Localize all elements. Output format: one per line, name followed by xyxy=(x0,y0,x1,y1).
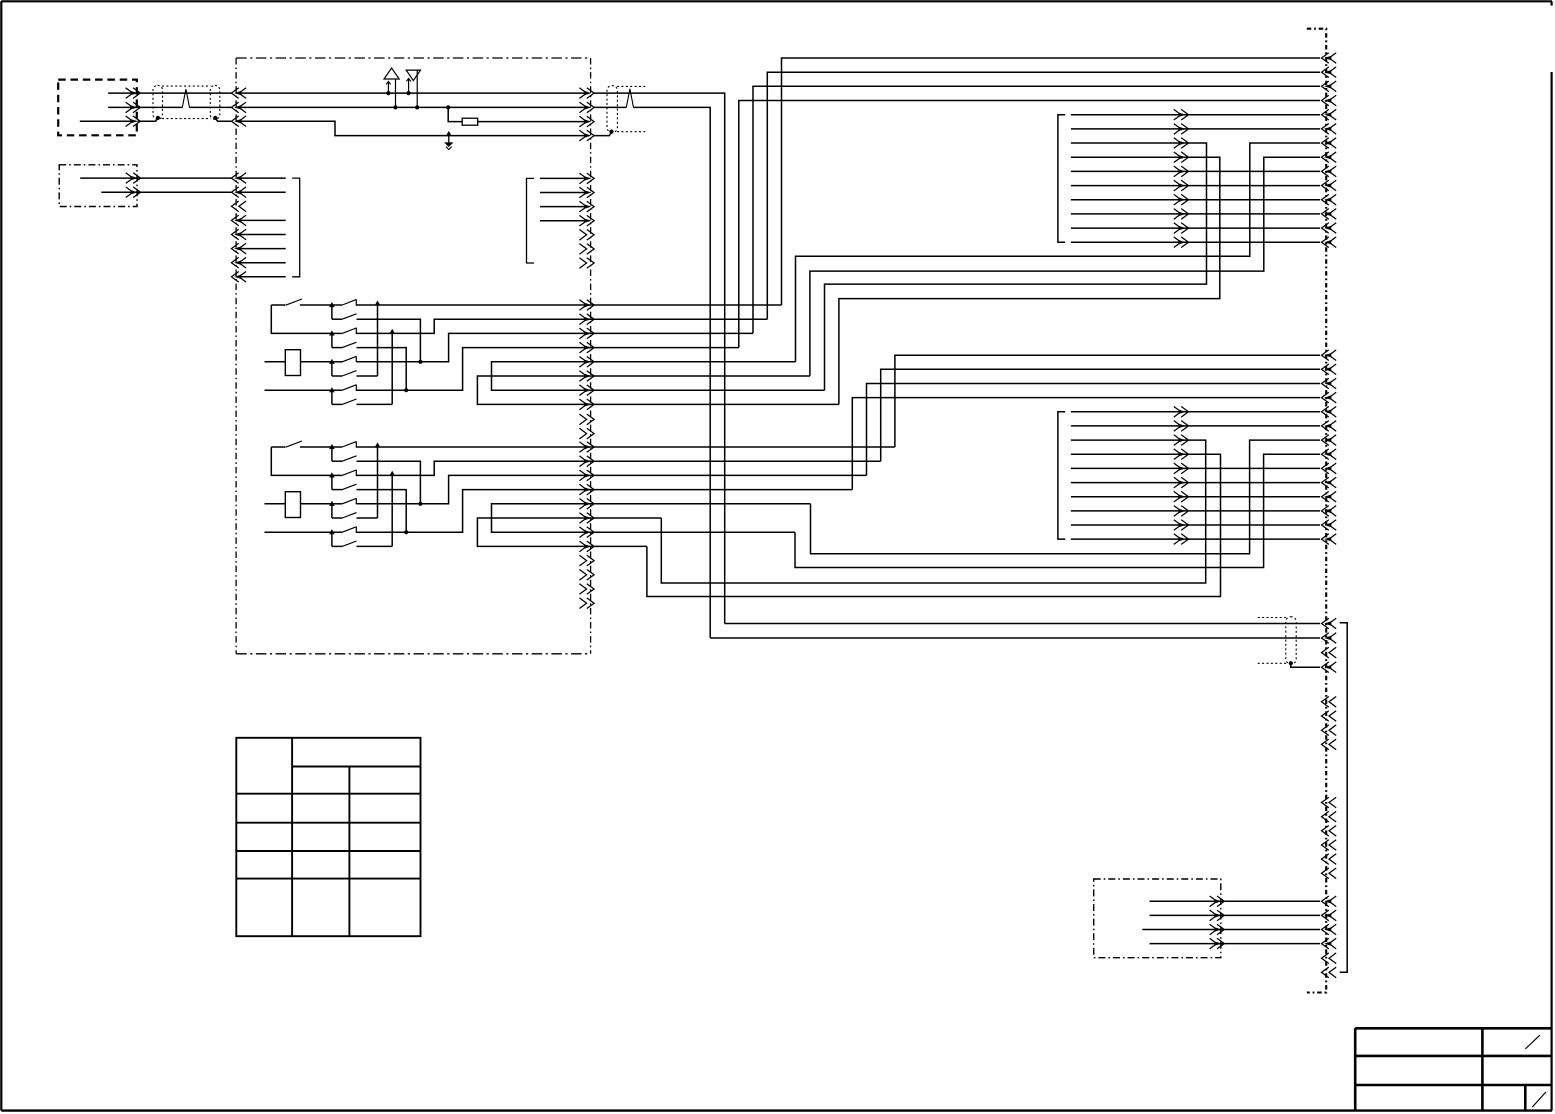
pin arrow X1.1 xyxy=(126,88,141,99)
wire harness upper line 4 (via drop to K1.8) xyxy=(839,157,1220,404)
relay coil K1 xyxy=(285,350,300,376)
wire harness lower line 7 (bracket to X4) xyxy=(1071,496,1320,498)
wire staircase row3 (to X4 lower pin 3) xyxy=(867,384,1321,476)
resistor R1 (terminator) xyxy=(462,118,478,125)
pin arrow A1 relay row 19 (no wire) xyxy=(579,555,594,566)
pin arrow A1 left pin 6 (no wire) xyxy=(231,201,246,212)
wire K1.2 NC throw to row7 net xyxy=(357,348,407,391)
wire harness lower line 3 (via drop to K2.6) xyxy=(661,440,1205,583)
pin arrow A1 relay row 15 xyxy=(579,499,594,510)
junction dot (K2.1 / K2.3-NC tie) xyxy=(375,442,381,447)
wire shield TP2 to A1 pin xyxy=(594,132,612,136)
pin arrow X4 pin 40 (no wire) xyxy=(1322,840,1337,851)
pin arrow A1 relay row 7 xyxy=(579,385,594,396)
revision table (bottom left) xyxy=(236,738,420,936)
wire A1 internal center row 4 (bracket to pin) xyxy=(540,220,587,222)
ECU block outline A1 bottom edge (dash-dot) xyxy=(236,653,591,655)
relay contact K2.1 (changeover) xyxy=(329,444,335,449)
drawing frame border bottom xyxy=(1,1109,1552,1111)
pin arrow X4 upper pin 11 xyxy=(1322,194,1337,205)
shield junction dot TP1 right xyxy=(213,116,217,120)
harness arrow upper 2 xyxy=(1174,124,1189,135)
twisted pair shield TP3 (dotted outline) xyxy=(1258,617,1288,619)
wire bus row4 (riser x739 to X4 pin 4) xyxy=(739,101,1320,348)
junction dot CAN-L tap 3 xyxy=(446,105,450,109)
harness arrow lower 7 xyxy=(1174,491,1189,502)
wire A1 internal center row 2 (bracket to pin) xyxy=(540,192,587,194)
drawing frame border left xyxy=(0,1,2,1110)
pin arrow A1 relay row 11 xyxy=(579,442,594,453)
pin arrow A1 relay row 14 xyxy=(579,484,594,495)
harness arrow lower 8 xyxy=(1174,506,1189,517)
power symbol up-triangle xyxy=(384,68,399,79)
pin arrow X4 pin 31 (no wire) xyxy=(1322,647,1337,658)
pin arrow A1 relay row 13 xyxy=(579,470,594,481)
wire resistor R1 to A1 pin xyxy=(478,121,587,123)
title block slash mark (lower) xyxy=(1532,1092,1546,1107)
pin arrow X4 upper pin 4 xyxy=(1322,95,1337,106)
wire X2 pin 1 to A1 xyxy=(80,177,232,179)
pin arrow A1 center pin 2 xyxy=(579,102,594,113)
pin arrow A1 relay row 20 (no wire) xyxy=(579,570,594,581)
pin arrow X1.3 xyxy=(126,116,141,127)
wire A1 internal row 5 (to bracket) xyxy=(240,234,286,236)
shield junction dot TP3 xyxy=(1289,661,1293,665)
pin arrow X4 lower pin 14 xyxy=(1322,534,1337,545)
pin arrow X4 upper pin 14 xyxy=(1322,237,1337,248)
group bracket (harness group upper) xyxy=(1058,115,1065,243)
pin arrow X5.1 xyxy=(1210,896,1225,907)
harness arrow lower 2 xyxy=(1174,421,1189,432)
wire harness lower line 4 (via drop to K2.8) xyxy=(647,454,1221,596)
pin arrow X4 upper pin 2 xyxy=(1322,67,1337,78)
wire K1 row6 return (riser to X4 pin 8) xyxy=(810,157,1320,376)
pin arrow A1 left pin 7 xyxy=(231,215,246,226)
wire jumper A2 pins row6-row8 (drops) xyxy=(477,518,661,546)
harness arrow upper 9 xyxy=(1174,223,1189,234)
wire harness upper line 1 (bracket to X4) xyxy=(1071,114,1320,116)
connector box X1 (top-left, dashed) xyxy=(58,80,137,136)
wire A1 internal center row 3 (bracket to pin) xyxy=(540,206,587,208)
wire X2 pin 2 to A1 xyxy=(101,191,232,193)
wire harness upper line 7 (bracket to X4) xyxy=(1071,199,1320,201)
wire switch S1 to contact K1.2 common xyxy=(271,305,332,333)
harness arrow upper 3 xyxy=(1174,138,1189,149)
wire K2.4 NO throw (riser) to staircase row4 xyxy=(356,490,852,533)
harness arrow lower 9 xyxy=(1174,520,1189,531)
wire harness upper line 8 (bracket to X4) xyxy=(1071,213,1320,215)
wire K2.3 NO throw (riser) to staircase row3 xyxy=(357,475,867,503)
pin arrow X2.2 xyxy=(126,187,141,198)
pin arrow X4 lower pin 9 xyxy=(1322,463,1337,474)
wire harness lower line 9 (bracket to X4) xyxy=(1071,524,1320,526)
wire CAN-L to resistor R1 xyxy=(448,107,462,121)
pin arrow A1 relay row 9 (no wire) xyxy=(579,414,594,425)
group bracket (left pin group) xyxy=(292,178,300,277)
drawing frame border right (upper stub) xyxy=(1550,1,1552,5)
wire down-triangle to CAN-L xyxy=(416,70,418,107)
harness arrow upper 7 xyxy=(1174,194,1189,205)
pin arrow A1 left pin 10 xyxy=(231,257,246,268)
wire harness upper line 3 (via drop to K1.7) xyxy=(825,143,1207,390)
wire staircase row4 (to X4 lower pin 4) xyxy=(852,398,1320,490)
wire X5 line 1 to X4 xyxy=(1150,900,1321,902)
pin arrow X4 lower pin 12 xyxy=(1322,506,1337,517)
pin arrow A1 relay row 18 xyxy=(579,541,594,552)
harness arrow upper 10 xyxy=(1174,237,1189,248)
wire shield TP3 to X4 pin xyxy=(1291,664,1320,668)
wire K1.2 NO throw (jog up) to A1 pin row2 xyxy=(356,319,767,333)
wire coil K1 to contact K1.3 common xyxy=(301,361,332,363)
connector column A1 center (dash-dot) xyxy=(590,58,592,654)
pin arrow X4 pin 34 (no wire) xyxy=(1322,711,1337,722)
pin arrow X4 upper pin 3 xyxy=(1322,81,1337,92)
harness arrow upper 6 xyxy=(1174,180,1189,191)
pin arrow X4 upper pin 5 xyxy=(1322,109,1337,120)
wire K1 row5 return (riser to X4 pin 7) xyxy=(796,143,1321,362)
wire harness lower line 5 (bracket to X4) xyxy=(1071,467,1320,469)
harness arrow lower 6 xyxy=(1174,477,1189,488)
pin arrow A1 relay row 4 xyxy=(579,342,594,353)
wire tie K1.3-NC to row1 xyxy=(377,305,379,376)
switch S2 (manual contact) xyxy=(271,446,285,448)
wire K2.2 NC throw to row7 net xyxy=(357,490,407,533)
wire CAN-H (X1 to A1 pin) xyxy=(108,92,232,94)
title block (bottom right) xyxy=(1355,1027,1551,1030)
wire up-triangle to CAN-L xyxy=(395,79,397,107)
pin arrow X4 CAN-H xyxy=(1322,618,1337,629)
twist symbol TP2 (spike) xyxy=(626,89,633,108)
junction dot (K2.2-NC / K2.4-NO tie) xyxy=(404,530,408,534)
wire harness lower line 1 (bracket to X4) xyxy=(1071,411,1320,413)
wire harness upper line 9 (bracket to X4) xyxy=(1071,227,1320,229)
pin arrow X4 upper pin 1 xyxy=(1322,53,1337,64)
wire A1 internal row 7 (to bracket) xyxy=(240,262,286,264)
pin arrow X4 pin 35 (no wire) xyxy=(1322,725,1337,736)
harness arrow lower 5 xyxy=(1174,463,1189,474)
wire A1 internal row 1 (to bracket) xyxy=(240,177,286,179)
wire K2 row5 return (drop to X4 lower pin 7) xyxy=(811,440,1321,554)
wire CAN-L inside A1 (pin to pin) xyxy=(240,106,588,108)
wire K1.1 NC throw to row5 net xyxy=(357,319,421,362)
wire K1.4 NC throw xyxy=(357,403,393,405)
relay contact K1.2 (changeover) xyxy=(329,330,335,335)
pin arrow X4 pin 33 (no wire) xyxy=(1322,697,1337,708)
power symbol down-triangle xyxy=(406,70,420,81)
pin arrow X4 lower pin 2 xyxy=(1322,364,1337,375)
wire shield inside A1 (step down) xyxy=(236,121,587,135)
pin arrow A1 center pin 5 xyxy=(579,173,594,184)
pin arrow A1 left pin 11 xyxy=(231,272,246,283)
wire staircase row1 (to X4 lower pin 1) xyxy=(895,355,1320,447)
pin arrow X4 upper pin 9 xyxy=(1322,166,1337,177)
wire K2.3 NC throw xyxy=(357,517,378,519)
pin arrow X2.1 xyxy=(126,173,141,184)
junction dot (K1.1 / K1.3-NC tie) xyxy=(375,300,381,305)
wire A1 internal row 8 (to bracket) xyxy=(240,276,286,278)
wire K1.3 NO throw (riser) to A1 pin row3 xyxy=(357,333,754,361)
pin arrow A1 center pin 4 xyxy=(579,130,594,141)
junction dot (K1.2-NO / K1.4-NC tie) xyxy=(389,329,395,334)
connector column A1 left edge (dash-dot) xyxy=(235,58,237,654)
pin arrow X4 lower pin 4 xyxy=(1322,392,1337,403)
pin arrow X4 upper pin 8 xyxy=(1322,152,1337,163)
pin arrow X4 pin 38 (no wire) xyxy=(1322,811,1337,822)
pin arrow A1 relay row 10 (no wire) xyxy=(579,428,594,439)
drawing frame border right xyxy=(1550,72,1552,1111)
drawing frame border top xyxy=(1,0,1552,2)
wire harness upper line 10 (bracket to X4) xyxy=(1071,241,1320,243)
junction dot CAN-H tap 2 xyxy=(407,91,411,95)
pin arrow X4 pin 43 xyxy=(1322,896,1337,907)
pin arrow A1 center pin 7 xyxy=(579,201,594,212)
wire harness lower line 6 (bracket to X4) xyxy=(1071,482,1320,484)
harness arrow upper 4 xyxy=(1174,152,1189,163)
wire shield (twisted-pair dot to A1 pin) xyxy=(215,118,232,121)
junction dot CAN-L tap 2 xyxy=(415,105,419,109)
harness arrow lower 1 xyxy=(1174,407,1189,418)
pin arrow A1 left pin 8 xyxy=(231,229,246,240)
pin arrow X4 upper pin 10 xyxy=(1322,180,1337,191)
wire tie K2.4-NC to row3 xyxy=(391,475,393,546)
wire bus row2 (riser x767 to X4 pin 2) xyxy=(767,72,1320,319)
junction dot CAN-H tap 1 xyxy=(386,91,390,95)
pin arrow A1 left pin 1 xyxy=(231,88,246,99)
connector box X2 (left, dash-dot) xyxy=(59,165,137,207)
pin arrow X4 lower pin 7 xyxy=(1322,435,1337,446)
wire CAN-L (X1 to A1 pin, gap at twist symbol) xyxy=(108,106,182,108)
pin arrow X5.3 xyxy=(1210,924,1225,935)
shield junction dot TP2 xyxy=(609,130,613,134)
pin arrow X4 upper pin 6 xyxy=(1322,124,1337,135)
harness arrow upper 8 xyxy=(1174,209,1189,220)
relay contact K1.4 (changeover) xyxy=(329,387,335,392)
wire CAN-H inside A1 (pin to pin) xyxy=(240,92,588,94)
pin arrow X4 pin 37 (no wire) xyxy=(1322,797,1337,808)
pin arrow A1 center pin 8 xyxy=(579,215,594,226)
pin arrow X4 lower pin 8 xyxy=(1322,449,1337,460)
wire K2.4 NC throw xyxy=(357,545,393,547)
pin arrow A1 relay row 5 xyxy=(579,357,594,368)
group bracket (center pin group) xyxy=(527,178,535,263)
wire K1.1 NO throw to A1 pin row1 xyxy=(356,304,782,306)
wire harness upper line 5 (bracket to X4) xyxy=(1071,170,1320,172)
connector box X5 (bottom-right, dash-dot) xyxy=(1094,879,1221,958)
junction marker shield-ground xyxy=(446,131,452,136)
pin arrow X4 lower pin 10 xyxy=(1322,477,1337,488)
wire jumper A1 pins row5-row7 xyxy=(492,362,825,390)
junction dot CAN-L tap 1 xyxy=(393,105,397,109)
junction dot (K2.1-NC / K2.3-NO tie) xyxy=(418,502,422,506)
wire K1.4 NO throw (riser) to A1 pin row4 xyxy=(356,348,739,391)
ground symbol xyxy=(448,136,450,143)
pin arrow X4 lower pin 11 xyxy=(1322,491,1337,502)
wire X5 line 2 to X4 xyxy=(1150,914,1321,916)
group bracket (harness group lower) xyxy=(1058,412,1065,539)
wire contact K2.4 common feed xyxy=(265,531,332,533)
wire harness upper line 6 (bracket to X4) xyxy=(1071,185,1320,187)
pin arrow X4 pin 48 (no wire) xyxy=(1322,967,1337,978)
pin arrow X4 lower pin 3 xyxy=(1322,378,1337,389)
arrow tap to down-triangle from CAN-H xyxy=(408,79,410,93)
pin arrow A1 center pin 3 xyxy=(579,116,594,127)
wire K2 row7 return (drop to X4 lower pin 8) xyxy=(795,454,1320,567)
twist symbol TP1 (spike) xyxy=(182,89,189,107)
pin arrow X5.4 xyxy=(1210,938,1225,949)
wire CAN-L (drop to X4) xyxy=(710,637,1320,639)
pin arrow A1 center pin 1 xyxy=(579,88,594,99)
switch S1 (manual contact) xyxy=(271,304,285,306)
pin arrow A1 center pin 9 (no wire) xyxy=(579,230,594,241)
pin arrow A1 center pin 10 (no wire) xyxy=(579,244,594,255)
wire jumper A1 pins row6-row8 xyxy=(477,376,839,404)
harness arrow lower 3 xyxy=(1174,435,1189,446)
pin arrow A1 left pin 5 xyxy=(231,187,246,198)
twisted pair shield TP2 (dotted outline) xyxy=(617,85,645,87)
pin arrow X4 lower pin 5 xyxy=(1322,407,1337,418)
pin arrow X4 upper pin 7 xyxy=(1322,138,1337,149)
harness arrow upper 5 xyxy=(1174,166,1189,177)
pin arrow A1 relay row 1 xyxy=(579,300,594,311)
wire switch S2 to contact K2.2 common xyxy=(271,447,332,475)
harness arrow lower 4 xyxy=(1174,449,1189,460)
wire bus row3 (riser x753 to X4 pin 3) xyxy=(753,86,1320,333)
pin arrow X4 pin 44 xyxy=(1322,910,1337,921)
pin arrow X4 CAN-L xyxy=(1322,633,1337,644)
wire tie K2.3-NC to row1 xyxy=(377,447,379,518)
pin arrow X4 pin 47 (no wire) xyxy=(1322,953,1337,964)
pin arrow X4 upper pin 12 xyxy=(1322,209,1337,220)
junction dot (K1.2-NC / K1.4-NO tie) xyxy=(404,388,408,392)
pin arrow X4 pin 46 xyxy=(1322,938,1337,949)
relay contact K2.2 (changeover) xyxy=(329,472,335,477)
pin arrow A1 left pin 9 xyxy=(231,243,246,254)
pin arrow A1 relay row 3 xyxy=(579,328,594,339)
wire tie K1.4-NC to row3 xyxy=(391,333,393,404)
wire harness upper line 2 (bracket to X4) xyxy=(1071,128,1320,130)
wire bus row1 (riser x781 to X4 pin 1) xyxy=(782,58,1321,305)
wire staircase row2 (to X4 lower pin 2) xyxy=(881,369,1320,461)
relay coil K2 xyxy=(285,492,300,518)
pin arrow A1 left pin 3 xyxy=(231,116,246,127)
wire shield (X1 third pin) xyxy=(80,120,137,122)
harness arrow upper 1 xyxy=(1174,109,1189,120)
wire CAN-H (A1 pin to drop) xyxy=(594,93,725,623)
pin arrow X5.2 xyxy=(1210,910,1225,921)
pin arrow X4 shield xyxy=(1322,662,1337,673)
wire A1 internal row 4 (to bracket) xyxy=(240,219,286,221)
pin arrow A1 relay row 12 xyxy=(579,456,594,467)
pin arrow A1 relay row 21 (no wire) xyxy=(579,584,594,595)
pin arrow A1 relay row 16 xyxy=(579,513,594,524)
wire coil K2 feed xyxy=(265,503,286,505)
wire harness lower line 2 (bracket to X4) xyxy=(1071,425,1320,427)
relay contact K1.3 (changeover) xyxy=(329,359,335,364)
pin arrow X4 lower pin 13 xyxy=(1322,520,1337,531)
wire jumper A2 pins row5-row7 (drops) xyxy=(492,504,811,532)
pin arrow A1 center pin 11 (no wire) xyxy=(579,258,594,269)
wire K2.1 NC throw to row5 net xyxy=(357,461,421,504)
pin arrow X4 pin 39 (no wire) xyxy=(1322,826,1337,837)
wire coil K1 feed xyxy=(265,361,286,363)
pin arrow X4 pin 42 (no wire) xyxy=(1322,868,1337,879)
pin arrow X4 pin 41 (no wire) xyxy=(1322,854,1337,865)
pin arrow X4 upper pin 13 xyxy=(1322,223,1337,234)
group bracket (X4 lower pin group) xyxy=(1340,623,1348,973)
ECU block outline A1 top edge (dash-dot) xyxy=(236,57,591,59)
wire K1.3 NC throw xyxy=(357,375,378,377)
pin arrow X4 lower pin 6 xyxy=(1322,421,1337,432)
relay contact K2.3 (changeover) xyxy=(329,501,335,506)
harness arrow lower 10 xyxy=(1174,534,1189,545)
arrow tap to up-triangle from CAN-H xyxy=(387,82,389,93)
pin arrow A1 center pin 6 xyxy=(579,187,594,198)
wire coil K2 to contact K2.3 common xyxy=(301,503,332,505)
wire K2.1 NO throw to A1 pin row1 (to staircase) xyxy=(356,446,895,448)
wire A1 internal row 2 (to bracket) xyxy=(240,191,286,193)
pin arrow X4 pin 45 xyxy=(1322,924,1337,935)
connector line X4 (far right, dash-dot) xyxy=(1307,29,1326,993)
relay contact K1.1 (changeover) xyxy=(329,302,335,307)
wire CAN-L (A1 pin to drop, gap at twist symbol) xyxy=(594,106,627,108)
pin arrow A1 left pin 2 xyxy=(231,102,246,113)
wire X5 line 4 to X4 xyxy=(1150,943,1321,945)
pin arrow X4 pin 36 (no wire) xyxy=(1322,739,1337,750)
wire harness lower line 10 (bracket to X4) xyxy=(1071,538,1320,540)
junction dot (K1.1-NC / K1.3-NO tie) xyxy=(418,360,422,364)
wire CAN-H (drop to X4) xyxy=(725,623,1320,625)
wire K2.2 NO throw (jog up) to staircase row2 xyxy=(356,461,881,475)
wire A1 internal center row 1 (bracket to pin) xyxy=(540,177,587,179)
wire contact K1.4 common feed xyxy=(265,389,332,391)
twisted pair shield TP1 (dotted outline) xyxy=(162,85,211,87)
pin arrow A1 relay row 2 xyxy=(579,314,594,325)
title block slash mark (upper) xyxy=(1525,1035,1540,1049)
shield junction dot TP1 left xyxy=(156,116,160,120)
pin arrow A1 relay row 17 xyxy=(579,527,594,538)
pin arrow A1 relay row 8 xyxy=(579,399,594,410)
pin arrow X1.2 xyxy=(126,102,141,113)
wire X5 line 3 to X4 xyxy=(1142,929,1320,931)
pin arrow A1 relay row 6 xyxy=(579,371,594,382)
pin arrow A1 relay row 22 (no wire) xyxy=(579,598,594,609)
junction dot (K2.2-NO / K2.4-NC tie) xyxy=(389,471,395,476)
pin arrow A1 left pin 4 xyxy=(231,173,246,184)
pin arrow X4 lower pin 1 xyxy=(1322,350,1337,361)
relay contact K2.4 (changeover) xyxy=(329,529,335,534)
wire harness lower line 8 (bracket to X4) xyxy=(1071,510,1320,512)
wire A1 internal row 6 (to bracket) xyxy=(240,248,286,250)
wire shield (to twisted-pair shield dot, left) xyxy=(138,118,158,121)
